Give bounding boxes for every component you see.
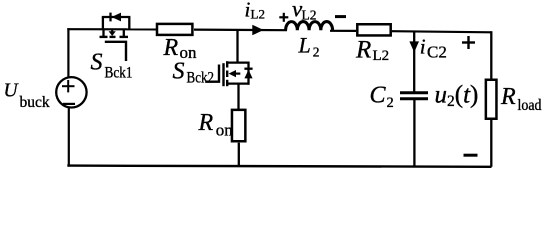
label - (v_L2) — [335, 15, 346, 18]
svg-text:u2(t): u2(t) — [435, 82, 479, 111]
svg-text:C2: C2 — [427, 43, 447, 62]
svg-text:on: on — [216, 121, 234, 140]
wire top rail: R_L2 to top-right corner (junction node at C2 branch) — [392, 31, 492, 32]
current arrow i_C2 — [409, 41, 419, 52]
wire S_Bck2 branch top — [236, 29, 238, 63]
inductor L2 — [286, 22, 333, 31]
wire top rail: R_on to inductor (junction node at S_Bck2 branch) — [194, 29, 287, 32]
svg-text:load: load — [518, 97, 542, 114]
transistor S_Bck2 (MOSFET with body diode, vertical) — [206, 61, 253, 86]
svg-text:R: R — [500, 84, 516, 110]
svg-text:L2: L2 — [251, 7, 265, 22]
resistor R_L2 — [357, 24, 390, 35]
label R_L2 — [355, 37, 389, 65]
svg-text:R: R — [355, 37, 371, 64]
label R_on (top) — [163, 35, 198, 62]
label R_on (vertical) — [198, 110, 234, 140]
svg-text:S: S — [173, 59, 185, 85]
label v_L2 — [292, 0, 317, 23]
label S_Bck2 — [173, 59, 215, 87]
label C_2 — [370, 83, 394, 112]
resistor R_load — [486, 80, 497, 119]
wire S_Bck2 to R_on — [237, 84, 239, 109]
svg-text:S: S — [91, 50, 103, 76]
resistor R_on (vertical) — [232, 110, 245, 141]
svg-text:R: R — [198, 110, 214, 136]
label R_load — [500, 84, 542, 114]
svg-text:U: U — [4, 81, 20, 102]
wire left branch below source — [68, 108, 70, 167]
svg-text:buck: buck — [20, 94, 50, 111]
wire top rail: inductor to R_L2 — [330, 30, 356, 32]
wire top rail: source corner to R_on — [67, 28, 156, 30]
wire right branch top — [490, 31, 492, 79]
wire bottom rail — [67, 166, 491, 167]
svg-text:2: 2 — [313, 45, 320, 60]
label S_Bck1 — [91, 50, 133, 82]
wire R_on to bottom rail — [238, 143, 240, 167]
wire capacitor branch top — [413, 32, 415, 93]
svg-text:i: i — [420, 35, 426, 59]
wire R_load to bottom rail — [490, 120, 492, 167]
svg-text:Bck1: Bck1 — [105, 65, 133, 82]
svg-text:R: R — [163, 35, 179, 61]
resistor R_on (top) — [157, 24, 192, 35]
label + (v_L2) — [279, 13, 288, 22]
svg-text:Bck2: Bck2 — [187, 70, 215, 87]
label - (output) — [464, 154, 478, 157]
svg-text:C: C — [370, 83, 387, 109]
label + (output) — [462, 36, 475, 49]
svg-text:L: L — [298, 33, 311, 58]
capacitor C2 — [400, 93, 428, 99]
wire left branch above source — [67, 28, 69, 77]
wire capacitor to bottom rail — [413, 99, 415, 167]
svg-text:2: 2 — [387, 95, 394, 111]
label L_2 — [298, 33, 320, 60]
label i_C2 — [420, 35, 447, 62]
label U_buck — [4, 81, 50, 112]
svg-text:L2: L2 — [373, 48, 390, 64]
transistor S_Bck1 (MOSFET with body diode, horizontal) — [100, 13, 131, 61]
label i_L2 — [245, 0, 265, 22]
current arrow i_L2 — [252, 25, 263, 36]
voltage source U_buck — [56, 77, 86, 107]
